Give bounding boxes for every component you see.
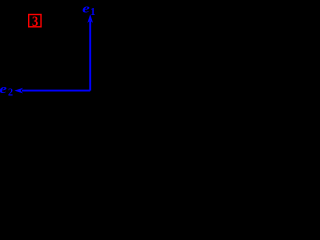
svg-text:3: 3 xyxy=(32,13,38,29)
svg-text:e: e xyxy=(0,83,7,97)
svg-text:2: 2 xyxy=(8,88,13,99)
svg-text:1: 1 xyxy=(90,7,95,18)
svg-text:e: e xyxy=(82,2,90,16)
